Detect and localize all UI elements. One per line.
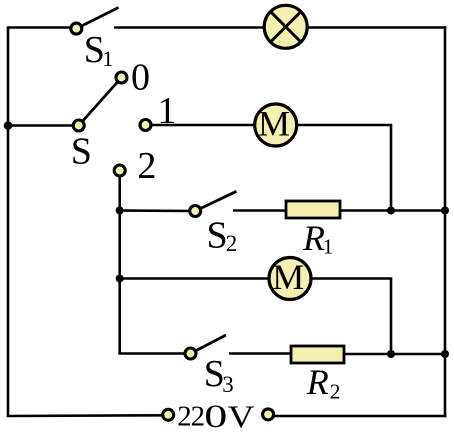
svg-text:1: 1: [323, 234, 334, 258]
wire S3 to R2: [229, 352, 291, 355]
wire S3 row from left column: [120, 352, 191, 353]
svg-text:3: 3: [222, 372, 234, 397]
node junction M2 row left: [116, 274, 124, 282]
wire terminal2 down left column: [118, 175, 121, 354]
node junction R2/M2: [387, 350, 395, 358]
battery terminal left: [163, 409, 174, 420]
resistor R2: [291, 346, 344, 363]
wire to S2 pivot: [120, 209, 196, 212]
svg-text:2: 2: [330, 379, 341, 403]
svg-text:V: V: [228, 400, 255, 433]
wire M2 to corner and down: [311, 279, 392, 355]
wire left vertical: [7, 28, 10, 417]
terminal 2: [114, 165, 125, 176]
svg-text:S: S: [71, 131, 92, 173]
wire right vertical: [444, 26, 447, 417]
svg-text:S: S: [207, 215, 228, 257]
terminal 1: [140, 120, 151, 131]
node junction R2 row right: [441, 350, 449, 358]
wire bottom left: [7, 414, 168, 417]
wire R2 to right vertical: [344, 353, 445, 356]
wire terminal1 to motor M1: [151, 124, 257, 127]
switch S blade: [79, 78, 122, 126]
node junction terminal2/S2 row: [116, 206, 124, 214]
node junction R1/M1: [387, 206, 395, 214]
svg-text:2: 2: [226, 231, 238, 256]
resistor R1: [286, 201, 340, 218]
lamp (circle with X): [264, 5, 307, 48]
svg-text:2: 2: [137, 145, 156, 187]
switch S2 pivot: [190, 206, 201, 217]
node junction R1 row right: [441, 206, 449, 214]
svg-text:R: R: [302, 218, 325, 258]
wire R1 to right vertical: [340, 209, 445, 212]
switch S1 pivot: [71, 23, 82, 34]
svg-text:0: 0: [131, 57, 150, 99]
node junction left / S row: [4, 121, 13, 130]
wire to motor M2: [120, 277, 271, 280]
wire M1 to corner and down: [297, 125, 392, 211]
svg-text:M: M: [272, 257, 304, 297]
wire bottom right: [273, 415, 447, 418]
motor M1: [255, 104, 297, 147]
terminal 0: [116, 72, 127, 83]
wire left to S pivot: [8, 124, 79, 127]
motor M2: [269, 257, 311, 300]
switch S1 blade: [76, 8, 118, 29]
svg-text:0: 0: [204, 398, 227, 433]
wire S1 to lamp: [114, 26, 264, 29]
svg-text:22: 22: [177, 401, 204, 433]
wire lamp to right vertical: [308, 26, 447, 29]
switch S pivot: [73, 120, 84, 131]
svg-text:M: M: [258, 104, 290, 144]
wire S2 to R1: [233, 209, 286, 212]
switch S2 blade: [195, 191, 236, 211]
switch S3 blade: [191, 335, 227, 354]
svg-text:1: 1: [102, 46, 113, 71]
wire top-left to S1: [7, 26, 76, 29]
svg-text:R: R: [306, 362, 329, 402]
battery terminal right: [263, 409, 274, 420]
switch S3 pivot: [185, 348, 196, 359]
